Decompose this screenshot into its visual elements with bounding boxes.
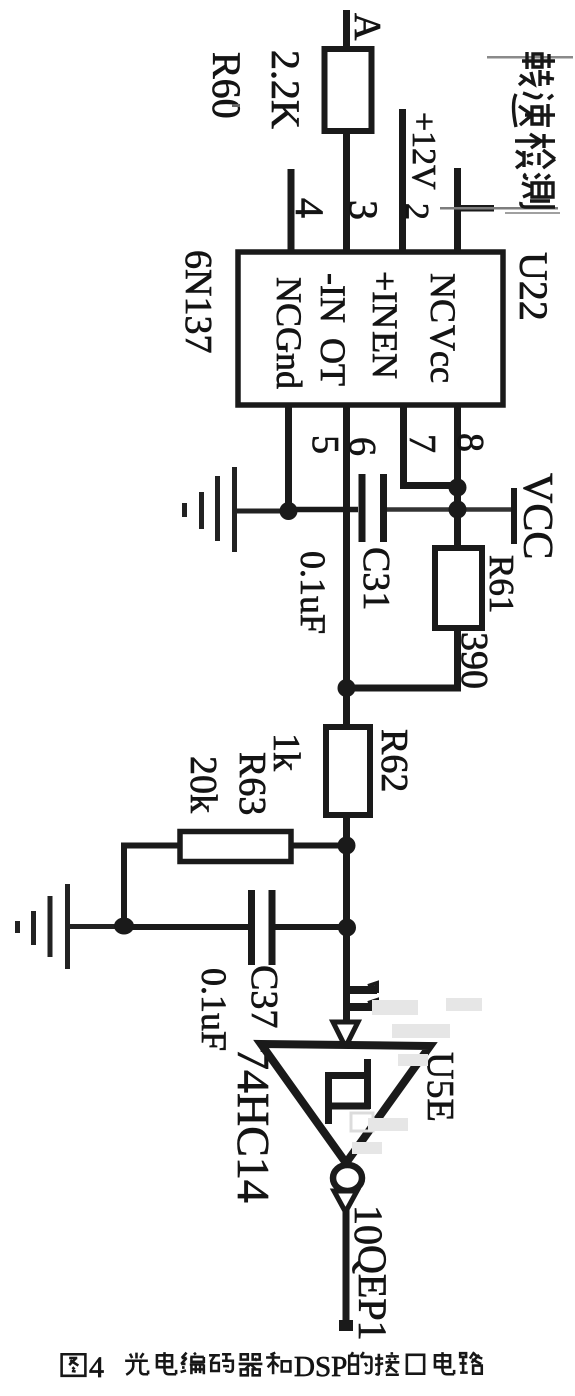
svg-text:U22: U22 xyxy=(511,252,556,321)
output arrowhead xyxy=(334,1191,357,1212)
svg-text:2.2K: 2.2K xyxy=(263,50,308,129)
output bubble of U5E xyxy=(333,1165,362,1191)
junction: pin7/pin8 xyxy=(449,479,467,497)
svg-text:C37: C37 xyxy=(243,965,285,1028)
svg-text:20k: 20k xyxy=(182,756,224,813)
svg-text:3: 3 xyxy=(341,200,386,220)
svg-text:4: 4 xyxy=(89,1351,104,1384)
svg-text:6N137: 6N137 xyxy=(177,250,219,353)
svg-text:4: 4 xyxy=(287,198,332,218)
wire: U22 pin 1 stub xyxy=(454,168,461,253)
svg-text:74HC14: 74HC14 xyxy=(228,1047,279,1203)
svg-text:OT: OT xyxy=(313,338,353,386)
wire: R60 to U22 pin 3 xyxy=(343,128,350,253)
inverter U5E triangle 74HC14 xyxy=(261,1044,430,1163)
wire: U22 pin 5 xyxy=(285,404,292,514)
svg-text:C31: C31 xyxy=(355,547,397,610)
svg-text:A: A xyxy=(346,13,388,41)
ground symbol (pin 5) xyxy=(185,467,287,552)
net VCC terminal bar xyxy=(511,488,517,544)
ghost print artifacts xyxy=(352,998,482,1154)
resistor R60 body xyxy=(325,49,372,131)
svg-text:Vcc: Vcc xyxy=(423,325,463,383)
wire: U22 pin 4 stub xyxy=(288,169,295,253)
char 口 xyxy=(407,1355,424,1374)
wire: Vcc-Gnd rail right xyxy=(387,507,512,512)
wire: C37 to output line xyxy=(275,924,348,930)
char 编 xyxy=(181,1353,205,1375)
svg-text:R61: R61 xyxy=(482,555,521,613)
char 码 xyxy=(209,1354,233,1371)
wire: pin 7 to pin 8 xyxy=(400,482,460,489)
svg-text:DSP: DSP xyxy=(294,1351,347,1383)
svg-text:NC: NC xyxy=(423,273,463,323)
svg-text:+IN: +IN xyxy=(365,271,405,329)
wire: U5E output to QEP1 xyxy=(343,1208,350,1327)
wire: encoder signal A input xyxy=(343,10,350,52)
junction: pin5/ground xyxy=(280,502,298,520)
wire: U22 pin 8 to R61 xyxy=(454,404,461,552)
svg-text:5: 5 xyxy=(304,435,346,454)
wire: ground junction to C37 xyxy=(124,924,248,930)
char 器 xyxy=(239,1354,263,1375)
wire: R63 left bend down xyxy=(124,846,180,925)
svg-text:QEP1: QEP1 xyxy=(350,1245,395,1341)
resistor R62 body xyxy=(326,727,370,815)
svg-text:6: 6 xyxy=(341,437,383,456)
capacitor C31 plates xyxy=(359,474,366,542)
char 光 xyxy=(125,1353,148,1375)
op-amp U22 optocoupler 6N137 body xyxy=(238,252,503,405)
svg-text:R63: R63 xyxy=(231,752,273,815)
input arrowhead into U5E xyxy=(333,1022,358,1047)
junction: ground/R63/C37 xyxy=(114,918,134,935)
wire: R62 bottom xyxy=(343,812,350,1026)
char 测 xyxy=(521,174,555,207)
char 图 xyxy=(62,1354,86,1376)
char 的 xyxy=(349,1352,371,1374)
char 电 (first) xyxy=(157,1352,176,1374)
char 速 xyxy=(514,93,556,127)
capacitor C37 plates xyxy=(248,890,255,965)
svg-text:0.1uF: 0.1uF xyxy=(194,968,234,1051)
svg-text:8: 8 xyxy=(449,433,491,452)
svg-text:0.1uF: 0.1uF xyxy=(293,551,333,634)
wire: U22 pin 6 output line xyxy=(343,404,350,731)
char 和 xyxy=(266,1353,290,1375)
wire: U22 pin 7 xyxy=(400,404,407,489)
svg-text:VCC: VCC xyxy=(514,473,560,559)
pin number 11 xyxy=(346,983,377,1010)
ground symbol (R63/C37) xyxy=(18,884,117,969)
char 路 xyxy=(460,1352,483,1374)
char 接 xyxy=(375,1352,399,1375)
char 电 (second) xyxy=(435,1352,454,1374)
title 转速检测 (hand-drawn glyphs, rotated) xyxy=(514,52,556,207)
junction: C37/output xyxy=(338,919,356,937)
caption: 图4 光电编码器和DSP的接口电路 xyxy=(62,1352,483,1376)
svg-text:7: 7 xyxy=(401,434,443,453)
junction: R61/output xyxy=(338,679,356,697)
pin number 1 xyxy=(456,205,494,212)
scan artifact lines xyxy=(487,56,573,59)
wire: R61 bottom bend to output line xyxy=(344,625,458,688)
char 转 xyxy=(519,52,555,86)
Schmitt hysteresis symbol xyxy=(325,1059,371,1124)
junction: pin8/rail xyxy=(449,501,467,519)
wire: junction to R63 xyxy=(291,843,347,849)
resistor R61 body xyxy=(435,548,482,628)
svg-text:NCGnd: NCGnd xyxy=(269,277,309,389)
svg-text:+12V: +12V xyxy=(405,112,442,190)
resistor R63 body xyxy=(180,832,291,862)
char 检 xyxy=(515,134,555,168)
wire: +12V to U22 pin 2 xyxy=(399,109,406,253)
svg-text:R62: R62 xyxy=(373,729,415,792)
svg-text:EN: EN xyxy=(365,331,405,379)
wire: Vcc-Gnd rail left xyxy=(289,507,359,513)
svg-text:-IN: -IN xyxy=(313,273,353,323)
junction: R62/R63 xyxy=(338,837,356,855)
svg-text:2: 2 xyxy=(398,203,435,220)
svg-text:10: 10 xyxy=(346,1205,391,1245)
ghost square artifact xyxy=(351,1113,373,1131)
wire end stub xyxy=(339,1320,353,1331)
svg-text:R60: R60 xyxy=(204,52,249,119)
